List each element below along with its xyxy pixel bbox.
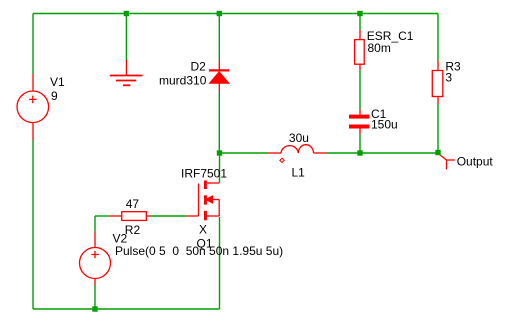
- voltage source V1: [17, 91, 49, 123]
- voltage source V2: [80, 248, 111, 279]
- current arrow marker L1: [280, 158, 284, 162]
- junction mid output: [435, 150, 440, 155]
- junction mid diode-L1: [217, 150, 222, 155]
- wire R3 top lead: [437, 61, 439, 71]
- svg-text:Pulse(0 5 0 50n 50n 1.95u 5u: Pulse(0 5 0 50n 50n 1.95u 5u): [115, 244, 283, 258]
- wire diode branch lower: [218, 92, 220, 151]
- output pin: [440, 155, 456, 170]
- wire gate rail mid: [151, 215, 187, 217]
- wire bottom rail: [33, 308, 220, 310]
- resistor ESR_C1: [355, 40, 365, 65]
- wire ground lead: [125, 60, 127, 75]
- junction top diode: [217, 11, 222, 16]
- wire V1 bottom lead: [32, 123, 34, 140]
- wire left vertical upper: [32, 14, 34, 75]
- wire R2 right lead: [146, 215, 150, 217]
- wire D2 top lead: [218, 61, 220, 70]
- inductor L1: [281, 145, 314, 153]
- wire R3 bottom lead: [437, 97, 439, 105]
- svg-text:murd310: murd310: [159, 74, 207, 88]
- svg-text:30u: 30u: [289, 131, 309, 145]
- junction bottom V2: [92, 306, 97, 311]
- wire L1 right lead: [314, 152, 327, 154]
- svg-text:L1: L1: [292, 166, 306, 180]
- wire diode branch upper: [218, 14, 220, 62]
- wire C1 bottom lead: [359, 129, 361, 135]
- svg-text:Output: Output: [457, 155, 494, 169]
- wire ESR-C1 mid: [359, 70, 361, 109]
- svg-text:IRF7501: IRF7501: [181, 167, 227, 181]
- junction top ESR: [357, 11, 362, 16]
- wire V2 branch lower: [94, 285, 96, 309]
- resistor R3: [432, 71, 443, 97]
- transistor Q1: [199, 181, 220, 221]
- capacitor C1: [349, 115, 369, 129]
- svg-text:D2: D2: [191, 60, 207, 74]
- wire left vertical lower: [32, 140, 34, 309]
- svg-text:47: 47: [126, 197, 140, 211]
- wire R3 branch lower: [437, 104, 439, 150]
- wire R2 left lead: [109, 215, 122, 217]
- svg-text:80m: 80m: [368, 41, 391, 55]
- wire right vertical upper: [437, 14, 439, 61]
- wire gate rail left: [95, 215, 109, 217]
- diode D2: [209, 70, 229, 83]
- wire V2 branch upper: [94, 216, 96, 232]
- wire drain vertical: [219, 156, 221, 183]
- wire mid rail right: [327, 152, 439, 154]
- wire C1 top lead: [359, 109, 361, 115]
- svg-text:3: 3: [445, 71, 452, 85]
- wire ground branch: [125, 14, 127, 61]
- ground: [110, 76, 143, 86]
- wire ESR_C1 bottom lead: [359, 64, 361, 70]
- svg-text:V1: V1: [50, 75, 65, 89]
- wire C1 branch lower: [359, 134, 361, 150]
- wire V1 top lead: [32, 74, 34, 91]
- junction mid C1: [357, 150, 362, 155]
- wire top rail: [33, 13, 438, 15]
- wire V2 top lead: [94, 232, 96, 248]
- resistor R2: [122, 212, 147, 221]
- wire ESR_C1 top lead: [359, 30, 361, 40]
- wire D2 bottom lead: [218, 83, 220, 91]
- wire V2 bottom lead: [94, 279, 96, 286]
- wire ESR branch upper: [359, 14, 361, 31]
- junction top ground: [124, 11, 129, 16]
- wire gate lead: [187, 215, 199, 217]
- svg-text:X: X: [199, 223, 207, 237]
- svg-text:150u: 150u: [371, 118, 398, 132]
- wire mid rail left: [220, 152, 268, 154]
- svg-text:9: 9: [51, 89, 58, 103]
- wire source vertical: [219, 217, 221, 309]
- wire L1 left lead: [268, 152, 282, 154]
